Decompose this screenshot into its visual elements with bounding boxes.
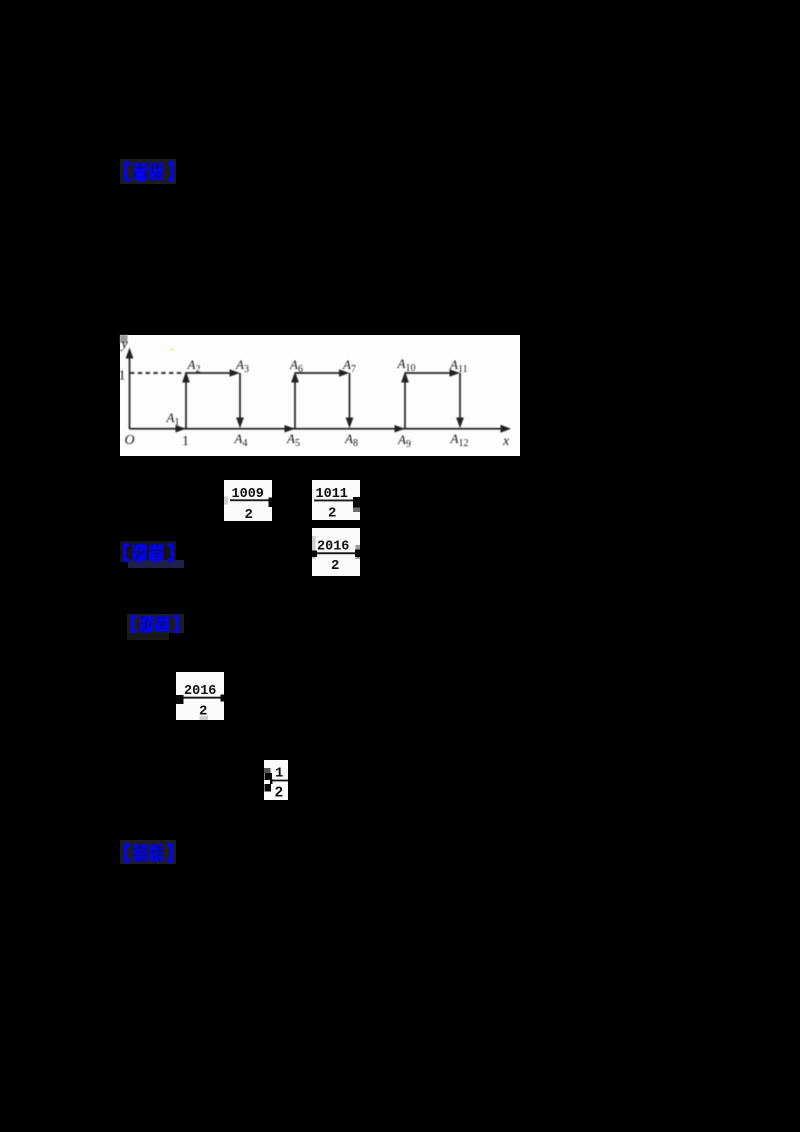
svg-text:A9: A9 xyxy=(397,432,411,450)
svg-text:A1: A1 xyxy=(166,410,180,428)
svg-text:O: O xyxy=(125,433,135,448)
svg-text:1: 1 xyxy=(275,766,283,782)
A10->A11 right xyxy=(456,418,464,429)
fraction 2016/2 (first) xyxy=(312,528,360,576)
fraction 1/2 xyxy=(264,760,288,800)
svg-text:2: 2 xyxy=(328,506,336,521)
svg-text:A10: A10 xyxy=(397,356,416,374)
svg-text:A4: A4 xyxy=(234,431,248,449)
svg-text:2: 2 xyxy=(245,507,253,521)
A6->A7 right xyxy=(346,418,354,429)
gray corner artifact xyxy=(120,335,128,343)
x-axis xyxy=(130,428,509,430)
A4->A5 xyxy=(291,372,299,383)
figure: coordinate graph with points A1..A12 xyxy=(120,335,520,456)
svg-text:A12: A12 xyxy=(450,431,469,449)
y-axis up xyxy=(501,425,512,433)
dashed line y=1 xyxy=(130,372,185,374)
label 1 blue section header xyxy=(120,159,176,184)
A9->A10 up xyxy=(450,369,461,377)
svg-text:A5: A5 xyxy=(286,431,300,449)
A1->A2 up xyxy=(230,369,241,377)
A5->A6 up xyxy=(339,369,350,377)
O->A1 xyxy=(182,372,190,383)
x-axis right xyxy=(176,425,187,433)
arrowheads xyxy=(126,348,134,359)
label 4 blue section header xyxy=(120,840,176,864)
label 3 blue section header xyxy=(127,614,184,633)
fraction 2016/2 (second) xyxy=(176,672,224,720)
label 2 blue section header xyxy=(120,541,176,562)
square wave verticals xyxy=(185,375,187,429)
svg-text:1: 1 xyxy=(120,369,126,384)
y-axis xyxy=(129,351,131,429)
A3->A4 down xyxy=(285,425,296,433)
top horizontals xyxy=(186,372,237,374)
svg-text:1: 1 xyxy=(182,434,189,449)
svg-text:2: 2 xyxy=(331,558,339,574)
svg-text:2016: 2016 xyxy=(317,540,349,555)
A8->A9 xyxy=(401,372,409,383)
A7->A8 down xyxy=(395,425,406,433)
A2->A3 right xyxy=(236,418,244,429)
svg-text:A8: A8 xyxy=(344,431,358,449)
fraction 1009/2 xyxy=(224,480,272,521)
labels xyxy=(119,337,511,449)
svg-text:y: y xyxy=(120,337,129,352)
svg-text:x: x xyxy=(502,434,510,449)
svg-text:2: 2 xyxy=(275,786,284,801)
fraction 1011/2 xyxy=(312,480,360,520)
yellow speck artifact xyxy=(170,348,174,351)
